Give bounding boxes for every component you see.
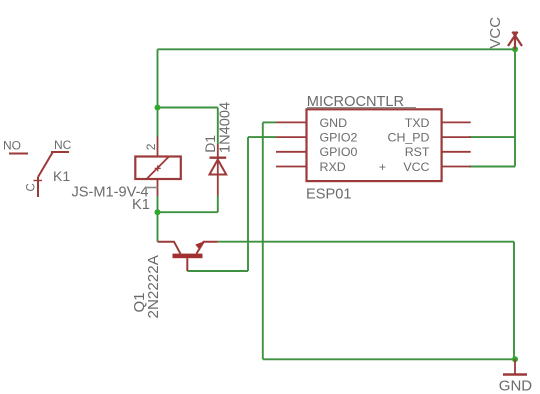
wire VCC rail right vertical: [514, 49, 516, 166]
relay K1 contact NO terminal: [9, 153, 28, 155]
pin CH_PD stub: [442, 136, 471, 138]
relay K1 coil center tick: [155, 165, 161, 171]
svg-text:ESP01: ESP01: [306, 187, 351, 203]
wire GND rail right vertical: [513, 242, 515, 360]
svg-text:VCC: VCC: [487, 17, 504, 49]
transistor Q1 base bar: [173, 254, 203, 259]
svg-text:CH_PD: CH_PD: [388, 131, 430, 145]
pin TXD stub: [442, 121, 471, 123]
wire diode bottom vertical: [217, 196, 219, 213]
relay K1 coil pin 1 tick: [147, 187, 158, 189]
wire VCC drop to coil: [157, 49, 159, 136]
svg-text:2N2222A: 2N2222A: [145, 254, 162, 318]
svg-text:K1: K1: [53, 168, 70, 184]
wire GPIO2 vertical down: [247, 137, 249, 271]
node GND junction: [512, 356, 518, 362]
transistor Q1 base lead: [186, 258, 188, 271]
svg-text:D1: D1: [202, 135, 218, 153]
pin GND stub: [276, 121, 307, 123]
wire CH_PD to VCC rail: [469, 136, 515, 138]
diode D1 anode line: [217, 158, 219, 196]
svg-text:RXD: RXD: [320, 160, 346, 174]
svg-text:K1: K1: [132, 197, 150, 213]
svg-text:GND: GND: [499, 378, 533, 394]
wire MCU GND pin stub wire: [263, 121, 276, 123]
op-amp U1 microcontroller box: [307, 109, 442, 181]
wire MCU GPIO2 pin stub wire: [248, 136, 276, 138]
svg-text:2: 2: [144, 143, 158, 150]
svg-text:VCC: VCC: [403, 160, 429, 174]
svg-text:TXD: TXD: [405, 116, 430, 130]
diode D1 triangle: [210, 160, 227, 175]
svg-text:C: C: [26, 183, 38, 191]
wire emitter to GND rail: [218, 241, 514, 243]
relay K1 contact pivot tick: [34, 180, 43, 182]
svg-text:NO: NO: [3, 139, 21, 153]
node VCC junction: [512, 46, 518, 52]
svg-text:GND: GND: [320, 116, 348, 130]
wire coil-top to diode branch: [158, 107, 218, 109]
svg-text:1N4004: 1N4004: [218, 102, 234, 153]
relay K1 coil bottom pin stub: [157, 179, 159, 196]
relay K1 coil top pin stub: [157, 137, 159, 157]
wire GND bottom horizontal: [263, 358, 515, 360]
node coil-top junction: [155, 105, 161, 111]
pin GPIO2 stub: [276, 136, 307, 138]
wire base horizontal: [187, 270, 248, 272]
label MICROCNTLR underline: [307, 107, 416, 109]
ground GND symbol: [503, 359, 527, 374]
wire MCU GND vertical down: [262, 122, 264, 359]
diode D1 cathode bar: [210, 156, 227, 158]
svg-text:+: +: [379, 160, 386, 174]
wire coil bottom loop horizontal: [158, 211, 218, 213]
wire VCC pin to VCC rail: [469, 166, 515, 168]
relay K1 coil diagonal: [147, 157, 170, 180]
diode D1 cathode stub: [217, 144, 219, 158]
relay K1 contact arm: [38, 153, 53, 178]
wire VCC top horizontal: [158, 48, 516, 50]
node coil-bottom junction: [155, 209, 161, 215]
transistor Q1 emitter arrow: [195, 242, 203, 250]
relay K1 coil body: [135, 157, 181, 180]
relay K1 contact NC terminal: [51, 151, 69, 153]
wire coil bottom vertical to collector: [157, 196, 159, 242]
transistor Q1 collector lead: [158, 242, 181, 254]
pin RST stub: [442, 151, 471, 153]
wire diode top vertical: [217, 108, 219, 145]
relay K1 contact C pin: [37, 177, 39, 197]
pin RXD stub: [276, 166, 307, 168]
power VCC symbol: [508, 32, 522, 50]
pin GPIO0 stub: [276, 151, 307, 153]
svg-text:GPIO2: GPIO2: [320, 131, 358, 145]
svg-text:RST: RST: [405, 145, 430, 159]
svg-text:NC: NC: [54, 138, 72, 152]
svg-text:GPIO0: GPIO0: [320, 145, 358, 159]
pin VCC stub: [442, 166, 471, 168]
transistor Q1 emitter lead: [197, 242, 218, 254]
